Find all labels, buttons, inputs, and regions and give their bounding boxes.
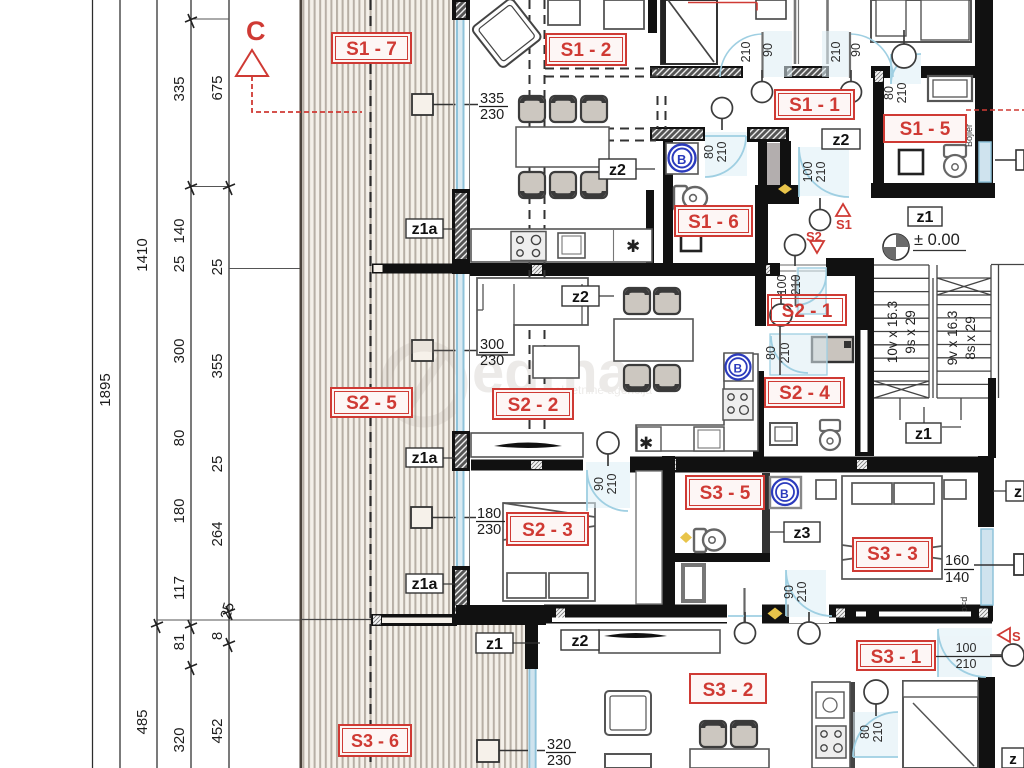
wall top right of door2	[871, 66, 890, 78]
S3-3 window right	[981, 529, 993, 605]
svg-text:80: 80	[171, 430, 188, 447]
svg-text:675: 675	[209, 75, 226, 100]
svg-text:210: 210	[814, 162, 828, 183]
S1-2 bed dark	[661, 0, 717, 64]
svg-text:210: 210	[739, 42, 753, 63]
svg-text:9v x 16.3: 9v x 16.3	[945, 311, 960, 366]
S2-4 cabinet	[812, 337, 853, 362]
svg-text:452: 452	[209, 718, 226, 743]
dimension line C	[156, 0, 158, 768]
svg-text:355: 355	[209, 353, 226, 378]
S3-2 sink	[816, 692, 844, 718]
svg-text:117: 117	[171, 576, 188, 600]
S2-4 sink	[770, 423, 797, 445]
window strip left 2	[456, 274, 465, 431]
stair wall right lower	[988, 378, 996, 458]
red dashed line right	[966, 109, 1024, 111]
svg-text:335: 335	[171, 76, 188, 101]
svg-text:S3 - 3: S3 - 3	[867, 544, 918, 565]
label z1 terrace	[476, 633, 540, 653]
svg-text:S3 - 1: S3 - 1	[871, 647, 922, 668]
svg-text:S1 - 6: S1 - 6	[688, 212, 739, 233]
S3-3 right wall upper	[978, 456, 994, 527]
pier hatched 4	[452, 566, 470, 620]
label z3	[768, 522, 820, 542]
room label S2-4	[765, 378, 844, 407]
bathroom S1-6 top hatched bar	[650, 127, 705, 141]
door leaf S2-4	[779, 323, 781, 375]
svg-text:140: 140	[945, 570, 969, 586]
S2-3 top wall	[471, 460, 583, 471]
door swing washes	[586, 31, 992, 757]
svg-text:✱: ✱	[626, 237, 640, 256]
S2 hall wall x755 lower	[753, 371, 764, 457]
room label S3-1	[857, 641, 935, 670]
room label S3-2	[690, 674, 766, 703]
svg-text:264: 264	[209, 521, 226, 546]
dashed overhang lines top a	[530, 0, 666, 433]
parapet wall S2-5/S3-6	[371, 614, 457, 626]
svg-text:80: 80	[858, 725, 872, 739]
wall bar right of S1-6 door	[747, 127, 789, 142]
stairwell left wall	[855, 258, 874, 456]
S1 sink	[558, 233, 585, 258]
main wall band y456	[630, 457, 978, 473]
S3-5 toilet	[694, 529, 725, 552]
svg-text:8: 8	[209, 632, 226, 640]
door arc S1-1 entry	[799, 147, 849, 197]
svg-text:9s x 29: 9s x 29	[903, 310, 918, 354]
svg-text:80: 80	[702, 145, 716, 159]
svg-text:B: B	[780, 487, 789, 501]
S2-3 closet	[636, 471, 662, 604]
svg-text:z1: z1	[915, 426, 932, 443]
S2 hall wall x755 upper	[755, 264, 766, 326]
hall L wall	[755, 185, 799, 204]
room label S2-5	[331, 388, 412, 417]
stairs right flight	[900, 265, 1024, 421]
dimension line A	[92, 0, 94, 768]
svg-text:B: B	[677, 152, 686, 167]
room label S2-2	[493, 389, 573, 419]
S3-2 chairs	[700, 721, 757, 747]
svg-text:z1a: z1a	[412, 576, 438, 593]
svg-text:z1: z1	[917, 209, 934, 226]
wall S1-2 left of bed	[648, 0, 657, 33]
window symbol square 180/230	[411, 507, 432, 528]
S1-6 shower square	[681, 232, 701, 251]
svg-text:180: 180	[171, 498, 188, 523]
S2-2 kitchen sink	[694, 427, 724, 451]
door arc S2 entry	[796, 276, 826, 305]
svg-text:S1 - 5: S1 - 5	[900, 119, 951, 140]
svg-text:S2 - 1: S2 - 1	[782, 301, 833, 322]
svg-text:z1a: z1a	[412, 221, 438, 238]
svg-text:10v x 16.3: 10v x 16.3	[885, 301, 900, 363]
label z partial right 1	[993, 481, 1024, 501]
kitchen S1 right wall	[646, 190, 654, 274]
wardrobe partition top	[794, 0, 829, 64]
svg-text:S1 - 2: S1 - 2	[561, 40, 612, 61]
label z1 partial right 2	[1002, 748, 1024, 768]
S1-5 toilet	[944, 145, 966, 177]
light point circles	[597, 30, 1024, 716]
room label S3-3	[853, 538, 932, 571]
svg-text:90: 90	[761, 43, 775, 57]
S3-5 bottom wall	[666, 553, 770, 562]
stair hall wall y259	[826, 258, 874, 276]
svg-text:z2: z2	[609, 162, 626, 179]
svg-text:230: 230	[480, 107, 504, 123]
svg-text:8s x 29: 8s x 29	[963, 316, 978, 360]
svg-text:C: C	[246, 16, 266, 46]
S1-5 bottom wall	[871, 183, 995, 198]
svg-text:S1 - 1: S1 - 1	[789, 95, 840, 116]
svg-text:S2 - 2: S2 - 2	[508, 395, 559, 416]
svg-text:S3 - 2: S3 - 2	[703, 680, 754, 701]
svg-text:S3 - 6: S3 - 6	[351, 731, 399, 751]
right exterior wall top	[975, 0, 993, 183]
z labels	[406, 129, 1024, 768]
stairs text	[885, 301, 978, 366]
room label S3-6	[339, 725, 411, 756]
svg-text:✱: ✱	[639, 434, 653, 453]
S3-2 stove	[816, 726, 846, 758]
svg-text:1410: 1410	[134, 238, 151, 271]
duct walls	[758, 141, 767, 187]
svg-text:80: 80	[882, 86, 896, 100]
S3-2 armchair 2	[605, 754, 651, 768]
S1-1 bed top	[871, 0, 971, 42]
S2-2 coffee table	[533, 346, 579, 378]
room label S1-2	[546, 34, 626, 65]
stairs left flight	[874, 265, 929, 398]
svg-text:80: 80	[764, 346, 778, 360]
S1-6 washing machine	[666, 143, 698, 174]
dimension line D	[190, 0, 192, 768]
svg-text:210: 210	[605, 474, 619, 495]
S3-1 right wall lower	[978, 677, 995, 768]
svg-text:160: 160	[945, 553, 969, 569]
svg-text:180: 180	[477, 506, 501, 522]
svg-text:230: 230	[480, 353, 504, 369]
label z2 sofa S2	[562, 286, 614, 306]
svg-text:300: 300	[480, 337, 504, 353]
window symbol square 335/230	[412, 94, 433, 115]
terrace left edge	[300, 0, 303, 768]
svg-text:210: 210	[715, 142, 729, 163]
terrace boundary line upper	[301, 619, 372, 621]
S3-2 armchair 1	[605, 691, 651, 735]
svg-text:90: 90	[849, 43, 863, 57]
callout square right top	[995, 150, 1024, 170]
room label S1-5	[884, 115, 966, 142]
terrace door threshold	[780, 265, 827, 271]
svg-text:o=d: o=d	[959, 597, 969, 612]
window strip left 1	[456, 18, 465, 192]
S2-2 TV sideboard	[471, 433, 583, 457]
svg-text:z3: z3	[794, 525, 811, 542]
svg-text:z2: z2	[833, 132, 850, 149]
svg-text:25: 25	[209, 259, 226, 276]
svg-text:1895: 1895	[97, 373, 114, 406]
S2-2 kitchen counter L	[636, 354, 758, 451]
room label S1-7	[332, 33, 411, 63]
svg-text:210: 210	[895, 83, 909, 104]
door arc S1-2a	[720, 34, 763, 77]
label z2 S3-2	[561, 630, 599, 650]
S1-1 nightstand	[756, 0, 786, 19]
svg-text:210: 210	[956, 657, 977, 671]
bottom wall left solid	[456, 605, 546, 625]
door line S3-1 top	[728, 615, 762, 617]
room label S2-3	[507, 513, 588, 545]
S2-2 dining table	[614, 319, 693, 361]
svg-text:335: 335	[480, 91, 504, 107]
S1-5 sink counter	[928, 76, 972, 101]
door arc S2-2 to S2-3	[587, 470, 628, 511]
S1 kitchen counter	[471, 229, 652, 262]
svg-text:S2 - 5: S2 - 5	[346, 393, 397, 414]
left facade frame lines	[453, 0, 455, 620]
S2-2 washing machine	[724, 353, 753, 381]
pier hatched 3	[452, 431, 470, 471]
armchair rotated S1-7	[471, 0, 543, 69]
label z1a mid	[406, 448, 456, 467]
S3-2 table	[690, 749, 769, 768]
svg-text:100: 100	[801, 162, 815, 183]
svg-text:± 0.00: ± 0.00	[914, 231, 960, 249]
svg-text:z2: z2	[572, 633, 589, 650]
door arc S3-2 kitchen	[853, 712, 898, 757]
yellow diamonds	[680, 184, 792, 620]
S2-2 chairs	[624, 288, 680, 391]
terrace front wall	[372, 264, 470, 274]
svg-text:320: 320	[547, 737, 571, 753]
red boundary line top	[688, 3, 757, 11]
svg-text:210: 210	[829, 42, 843, 63]
S1-2 dining table	[516, 127, 609, 167]
svg-text:S2: S2	[806, 229, 822, 244]
extension lines	[191, 18, 229, 20]
svg-text:B: B	[734, 362, 743, 376]
S2-3 bed	[503, 503, 595, 601]
svg-text:230: 230	[547, 753, 571, 768]
svg-text:90: 90	[782, 585, 796, 599]
S3-1 bed	[903, 681, 978, 768]
svg-text:S: S	[1012, 629, 1021, 644]
svg-text:25: 25	[171, 256, 188, 273]
room label S2-1	[768, 295, 846, 325]
svg-text:S3 - 5: S3 - 5	[700, 483, 751, 504]
S1-6 toilet	[674, 186, 707, 210]
room label S3-5	[686, 476, 764, 509]
S1-5 left wall	[873, 68, 884, 198]
lower terrace deck S3-6	[455, 622, 529, 768]
svg-text:S1: S1	[836, 217, 852, 232]
svg-text:485: 485	[134, 709, 151, 734]
S3-3 bed	[816, 476, 966, 579]
svg-text:210: 210	[795, 582, 809, 603]
door arc S1-2b	[850, 34, 893, 77]
S2-2 sofa	[477, 278, 588, 355]
watermark swirl	[386, 346, 462, 422]
bathroom S1-6 left wall	[663, 141, 673, 264]
lower terrace window	[528, 669, 537, 768]
upper terrace deck S1-7/S2-5	[301, 0, 455, 768]
S3-1/S3-2 divider	[850, 682, 855, 768]
svg-text:320: 320	[171, 727, 188, 752]
svg-text:z: z	[1014, 484, 1022, 501]
bottom wall double	[544, 605, 992, 624]
svg-text:z1: z1	[486, 636, 503, 653]
window right S1-5	[979, 142, 991, 182]
dimension line B	[119, 0, 121, 768]
label z1 stair	[908, 207, 942, 226]
S2-4 bathroom right wall	[762, 473, 770, 556]
label z1a top	[406, 219, 456, 238]
S3-5 shower	[683, 565, 704, 601]
S3-2 TV sideboard	[599, 630, 720, 653]
svg-text:25: 25	[209, 456, 226, 473]
pier hatched 2	[452, 189, 470, 274]
svg-text:100: 100	[775, 275, 789, 296]
door arc S2-4	[771, 336, 808, 373]
door arc S3-3 niche	[786, 570, 832, 616]
door arc S1-5	[891, 54, 921, 84]
label z2 S1-1	[822, 129, 860, 149]
svg-text:z: z	[1009, 751, 1017, 768]
room label S1-1	[775, 90, 854, 119]
door arc S1-6	[705, 136, 746, 177]
window symbol square 300/230	[412, 340, 433, 361]
label z2 dining S1	[599, 159, 655, 179]
S2-3/S3 divider vertical	[662, 456, 675, 620]
svg-text:S1 - 7: S1 - 7	[346, 39, 397, 60]
dimension line E	[228, 0, 230, 768]
label z1a low	[406, 574, 456, 593]
label z1 S3-3	[906, 407, 941, 443]
svg-text:90: 90	[592, 477, 606, 491]
S2-2 stove	[723, 389, 753, 420]
pier hatched 1	[452, 0, 470, 20]
svg-text:100: 100	[956, 641, 977, 655]
door arc S3-1 entry	[938, 629, 986, 677]
datum circle	[883, 231, 966, 260]
svg-text:81: 81	[171, 634, 188, 651]
svg-text:230: 230	[477, 522, 501, 538]
center wall band y264	[470, 263, 780, 276]
svg-text:140: 140	[171, 218, 188, 243]
property dashed line	[369, 0, 371, 768]
S2-4 toilet	[820, 420, 840, 450]
S1 stove	[511, 232, 546, 261]
svg-text:z2: z2	[572, 289, 589, 306]
S3-2 kitchen counter	[812, 682, 850, 768]
S2-2 asterisk box	[637, 427, 661, 451]
window symbol square 320/230	[477, 740, 499, 762]
door leaf S2 entry	[795, 276, 797, 306]
svg-text:210: 210	[871, 722, 885, 743]
room label S1-6	[675, 206, 752, 236]
svg-text:S2 - 4: S2 - 4	[779, 383, 830, 404]
svg-text:z1a: z1a	[412, 450, 438, 467]
wall bar mid top	[784, 66, 829, 78]
lower terrace right wall	[525, 621, 538, 669]
hatched wall top S1	[650, 66, 743, 78]
svg-text:300: 300	[171, 338, 188, 363]
tick marks	[151, 14, 235, 675]
S1-2 chairs top	[519, 96, 607, 198]
S1-5 shower	[899, 150, 923, 174]
chairs top edge S1-2	[548, 0, 580, 25]
window strip left 3	[456, 471, 465, 566]
svg-text:S2 - 3: S2 - 3	[522, 520, 573, 541]
S3-3 washing machine	[770, 477, 801, 508]
red section triangles	[810, 204, 1010, 642]
